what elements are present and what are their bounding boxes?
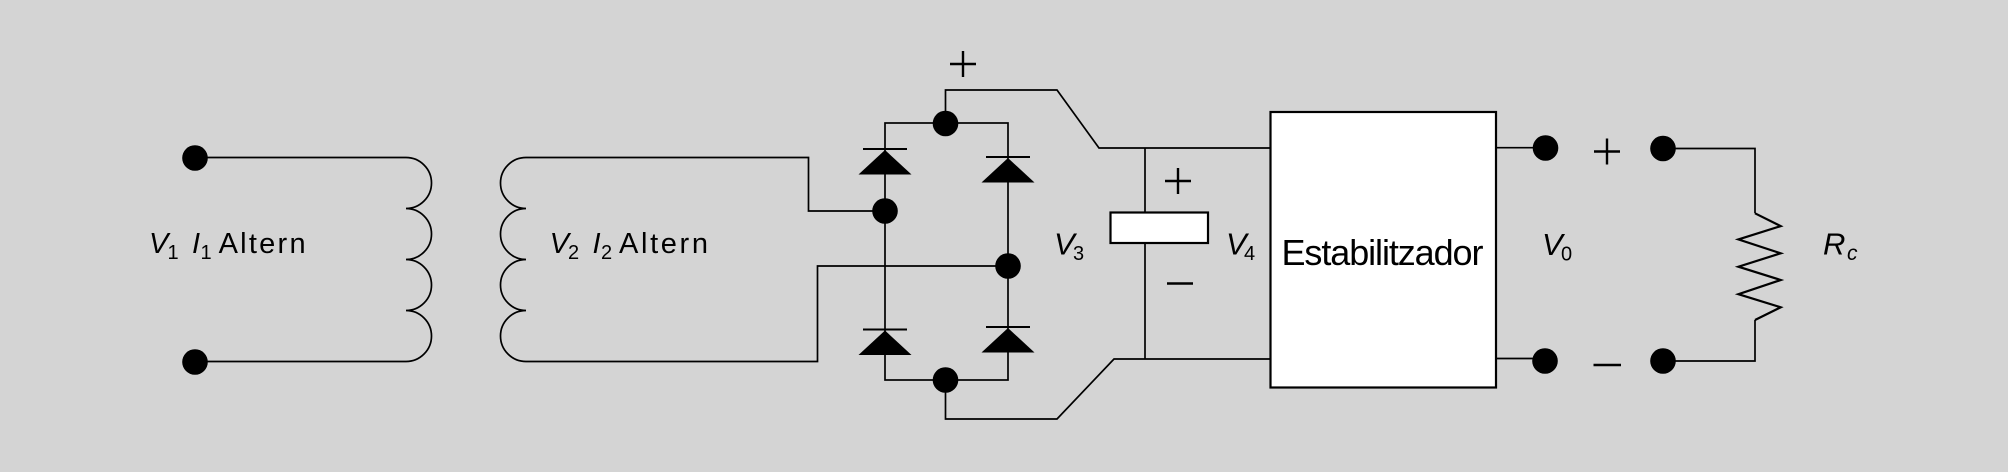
node output positive	[1533, 135, 1559, 161]
wire secondary top to bridge left node	[526, 158, 885, 212]
label plus bridge output	[950, 51, 976, 77]
node primary terminal top	[182, 145, 208, 171]
wire regulator output top	[1496, 147, 1546, 149]
svg-text:V1I1Altern: V1I1Altern	[149, 228, 306, 264]
wire load top	[1663, 149, 1755, 214]
wire load bottom	[1663, 320, 1755, 361]
node bridge bottom	[933, 367, 959, 393]
wire regulator output bottom	[1496, 358, 1545, 360]
node output negative	[1532, 348, 1558, 374]
svg-text:V3: V3	[1054, 227, 1084, 266]
wire secondary bottom to bridge right node	[526, 266, 1008, 362]
wire bridge positive rail	[946, 90, 1273, 148]
wire primary bottom	[195, 361, 406, 363]
node bridge right input	[995, 253, 1021, 279]
label plus capacitor	[1165, 168, 1191, 194]
resistor Rc zigzag	[1738, 213, 1780, 320]
svg-text:Rc: Rc	[1823, 227, 1858, 266]
svg-text:V0: V0	[1542, 227, 1572, 266]
diode D3 lower-left	[859, 330, 912, 356]
node load bottom	[1650, 348, 1676, 374]
svg-text:V4: V4	[1226, 227, 1255, 266]
bridge rectifier frame	[885, 123, 1008, 380]
diode D1 upper-left	[859, 149, 912, 175]
capacitor C1 body	[1111, 213, 1209, 244]
label minus output	[1594, 364, 1622, 366]
wire capacitor branch	[1144, 148, 1146, 359]
node bridge left input	[872, 198, 898, 224]
svg-text:V2I2Altern: V2I2Altern	[550, 228, 708, 264]
node primary terminal bottom	[182, 349, 208, 375]
regulator block U1 Estabilitzador	[1271, 112, 1497, 388]
label minus capacitor	[1167, 282, 1193, 284]
wire primary top	[195, 157, 406, 159]
diode D4 lower-right	[982, 327, 1035, 353]
label plus output	[1594, 139, 1620, 165]
wire bridge negative rail	[946, 359, 1273, 419]
diode D2 upper-right	[982, 157, 1035, 183]
inductor secondary winding	[501, 158, 527, 362]
node load top	[1650, 136, 1676, 162]
svg-text:Estabilitzador: Estabilitzador	[1282, 232, 1484, 273]
inductor primary winding	[406, 158, 432, 362]
node bridge top	[933, 111, 959, 137]
